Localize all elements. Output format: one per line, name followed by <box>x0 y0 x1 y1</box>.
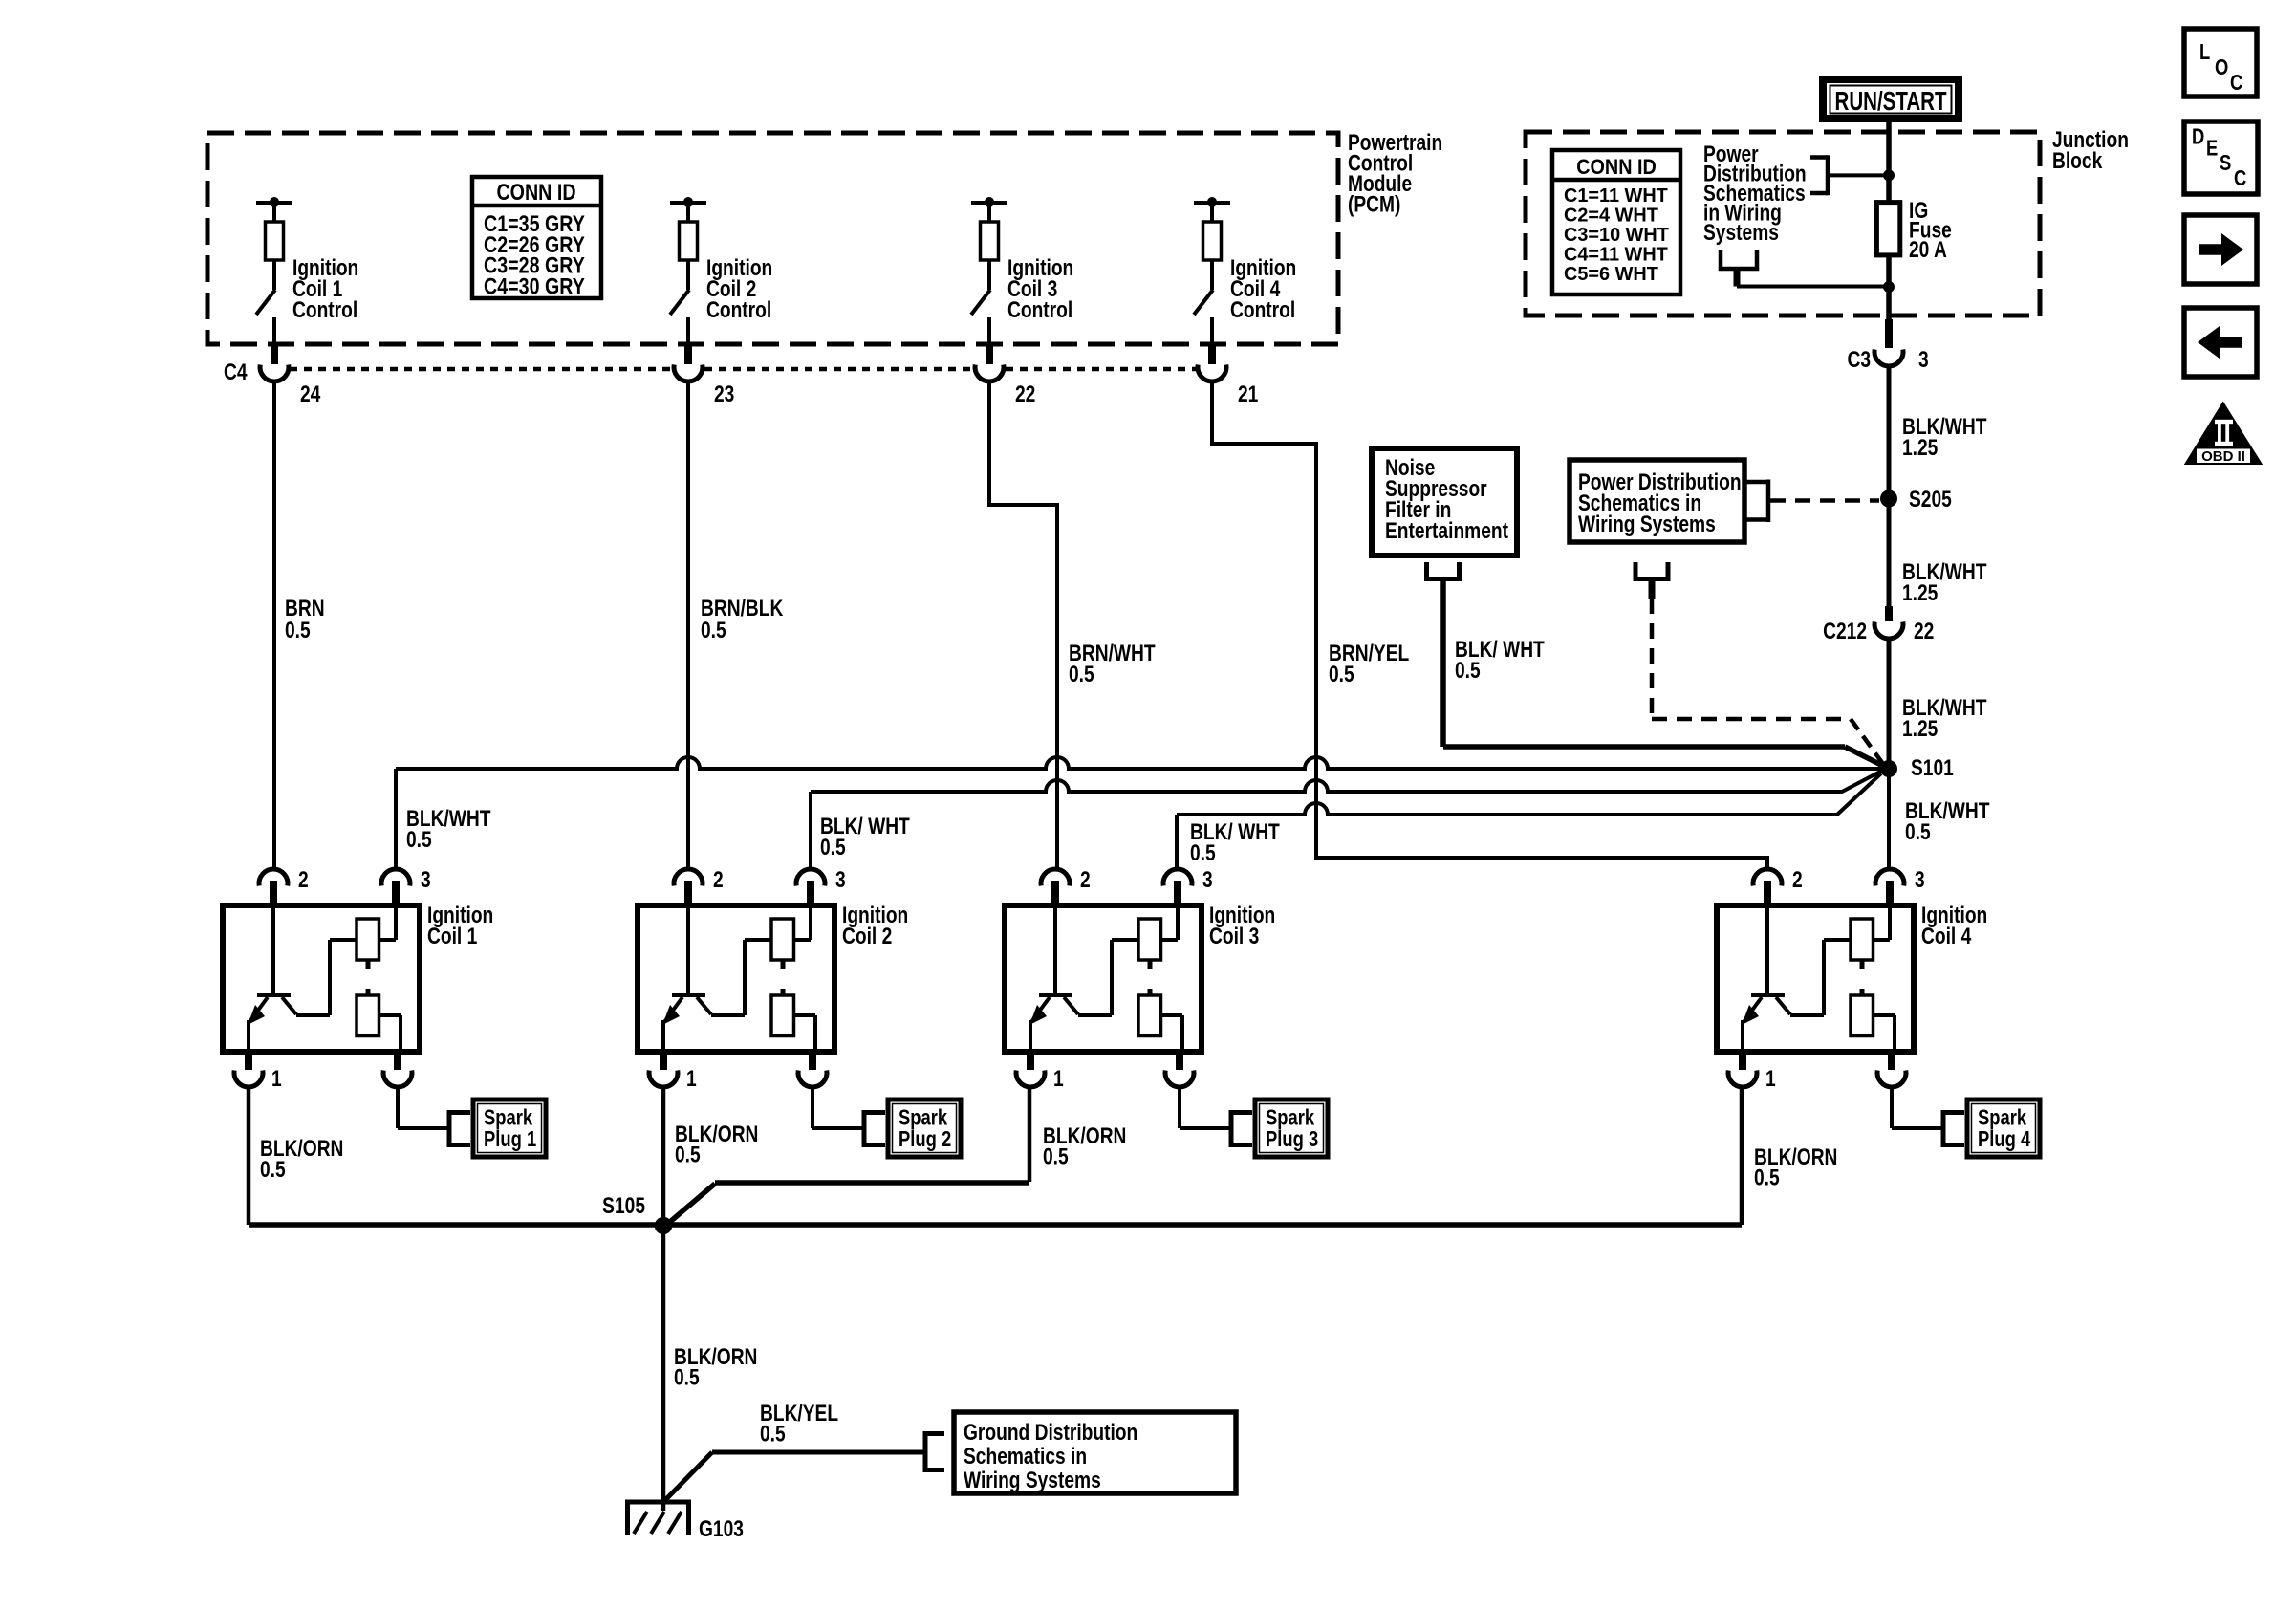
coil 2 spark output connector <box>809 1052 816 1070</box>
wire noise suppressor to S101 (BLK/ WHT 0.5) <box>1440 579 1446 748</box>
bracket under noise suppressor <box>1424 562 1429 577</box>
wire BRN/WHT 0.5 (coil 3 control) <box>989 381 1057 869</box>
wire coil 4 pin 1 BLK/ORN 0.5 <box>1740 1087 1744 1225</box>
ignition coil 1 box <box>223 905 420 1052</box>
svg-text:Control: Control <box>1007 296 1072 323</box>
ground G103 <box>625 1500 691 1505</box>
svg-text:Plug 1: Plug 1 <box>484 1127 536 1151</box>
connector C4 pin 21 <box>1208 344 1216 364</box>
connector C3 pin 3 <box>1885 319 1893 348</box>
coil 2 secondary winding <box>771 995 794 1036</box>
svg-text:Plug 4: Plug 4 <box>1978 1127 2031 1151</box>
LOC icon <box>2184 29 2257 97</box>
connector C4 pin 22 <box>986 344 993 364</box>
wire coil 2 pin 3 BLK/ WHT 0.5 to S101 <box>809 792 812 869</box>
coil 2 primary winding <box>771 919 794 960</box>
ignition coil 2 box <box>638 905 834 1052</box>
svg-text:0.5: 0.5 <box>406 826 432 853</box>
svg-text:0.5: 0.5 <box>1190 839 1216 866</box>
coil 4 transistor <box>1765 905 1769 995</box>
svg-text:G103: G103 <box>699 1515 744 1542</box>
svg-text:S105: S105 <box>602 1192 645 1219</box>
Junction Block box (dashed) <box>1526 132 2040 316</box>
coil 3 transistor <box>1053 905 1057 995</box>
svg-text:0.5: 0.5 <box>820 834 846 860</box>
wire BRN 0.5 (coil 1 control) <box>272 381 276 869</box>
Power Distribution Schematics box <box>1570 460 1744 542</box>
svg-text:2: 2 <box>713 866 724 893</box>
svg-text:Control: Control <box>292 296 357 323</box>
svg-text:0.5: 0.5 <box>1329 661 1354 687</box>
svg-text:0.5: 0.5 <box>701 617 726 643</box>
svg-text:3: 3 <box>1202 866 1213 893</box>
svg-text:0.5: 0.5 <box>285 617 311 643</box>
wire coil 1 to spark plug 1 <box>396 1087 400 1128</box>
svg-text:23: 23 <box>714 381 734 407</box>
svg-text:24: 24 <box>300 381 320 407</box>
svg-text:1: 1 <box>271 1065 282 1092</box>
coil 2 pin 1 connector <box>660 1052 667 1070</box>
right arrow icon <box>2184 215 2257 284</box>
svg-text:O: O <box>2215 55 2228 79</box>
coil 4 pin 3 connector <box>1875 869 1904 885</box>
svg-text:C: C <box>2234 166 2246 190</box>
junction node above fuse <box>1883 169 1895 181</box>
svg-text:Systems: Systems <box>1703 219 1779 246</box>
svg-text:C5=6 WHT: C5=6 WHT <box>1564 264 1659 285</box>
wire BLK/YEL 0.5 to ground distribution <box>664 1452 712 1501</box>
wire coil 2 pin 1 BLK/ORN 0.5 <box>661 1087 666 1225</box>
coil 1 pin 1 connector <box>245 1052 252 1070</box>
svg-text:C4: C4 <box>224 359 248 385</box>
svg-text:0.5: 0.5 <box>1069 661 1094 687</box>
bracket spark plug 1 <box>447 1110 452 1147</box>
OBD II icon <box>2184 402 2263 466</box>
svg-text:3: 3 <box>1918 346 1929 373</box>
bracket to power distribution schematics <box>1810 155 1828 160</box>
svg-text:0.5: 0.5 <box>1043 1143 1069 1169</box>
svg-text:CONN ID: CONN ID <box>496 179 575 205</box>
coil 3 pin 2 connector <box>1041 869 1070 885</box>
PCM CONN ID table <box>472 177 601 298</box>
svg-text:Wiring Systems: Wiring Systems <box>964 1467 1101 1493</box>
Spark Plug 4 box <box>1967 1099 2040 1157</box>
wire coil 1 pin 3 BLK/WHT 0.5 to S101 <box>394 769 398 869</box>
junction node below fuse <box>1883 281 1895 293</box>
svg-text:Coil 3: Coil 3 <box>1209 923 1259 949</box>
svg-text:E: E <box>2206 137 2218 161</box>
svg-text:3: 3 <box>835 866 846 893</box>
svg-text:Plug 3: Plug 3 <box>1266 1127 1318 1151</box>
svg-text:22: 22 <box>1015 381 1035 407</box>
svg-text:C4=11 WHT: C4=11 WHT <box>1564 244 1668 265</box>
wire S105 to G103 BLK/ORN 0.5 <box>661 1225 666 1511</box>
bracket spark plug 2 <box>862 1110 867 1147</box>
PCM module box (dashed) <box>207 133 1338 344</box>
svg-text:L: L <box>2199 40 2210 64</box>
wire coil 3 pin 3 BLK/ WHT 0.5 to S101 <box>1175 815 1179 869</box>
Junction CONN ID table <box>1552 150 1680 294</box>
coil 4 secondary winding <box>1851 995 1874 1036</box>
svg-text:21: 21 <box>1238 381 1258 407</box>
DESC icon <box>2184 121 2258 194</box>
svg-text:(PCM): (PCM) <box>1348 190 1400 217</box>
coil 3 secondary winding <box>1138 995 1161 1036</box>
wire fuse to junction box exit <box>1886 255 1892 319</box>
svg-text:2: 2 <box>1792 866 1803 893</box>
svg-text:Control: Control <box>706 296 771 323</box>
bracket spark plug 4 <box>1941 1110 1946 1147</box>
wire coil 2 to spark plug 2 <box>811 1087 814 1128</box>
ignition coil 4 box <box>1717 905 1914 1052</box>
svg-text:OBD II: OBD II <box>2201 448 2245 465</box>
svg-text:RUN/START: RUN/START <box>1835 86 1947 116</box>
coil 3 pin 3 connector <box>1163 869 1192 885</box>
svg-text:22: 22 <box>1914 618 1934 644</box>
coil 1 transistor <box>271 905 275 995</box>
svg-text:20 A: 20 A <box>1909 236 1947 263</box>
wire coil 3 pin 1 BLK/ORN 0.5 <box>1028 1087 1032 1182</box>
svg-text:1: 1 <box>1765 1065 1776 1092</box>
svg-text:C2=4 WHT: C2=4 WHT <box>1564 205 1659 226</box>
coil 4 spark output connector <box>1888 1052 1895 1070</box>
svg-text:C3: C3 <box>1847 346 1871 373</box>
svg-text:D: D <box>2192 125 2204 149</box>
svg-text:Ground Distribution: Ground Distribution <box>964 1419 1137 1446</box>
wire BRN/BLK 0.5 (coil 2 control) <box>686 381 690 869</box>
splice S205 <box>1880 490 1897 508</box>
coil 3 pin 1 connector <box>1027 1052 1034 1070</box>
wire bracket to ignition feed <box>1828 173 1889 177</box>
bracket spark plug 3 <box>1229 1110 1234 1147</box>
RUN/START power tag <box>1819 76 1962 122</box>
svg-text:3: 3 <box>1915 866 1925 893</box>
svg-text:1.25: 1.25 <box>1902 434 1938 461</box>
bracket right of power distribution box <box>1745 480 1766 485</box>
dashed wire to S205 <box>1770 498 1879 503</box>
svg-text:Entertainment: Entertainment <box>1385 517 1508 544</box>
svg-text:Plug 2: Plug 2 <box>899 1127 951 1151</box>
svg-text:C: C <box>2230 71 2242 95</box>
svg-text:0.5: 0.5 <box>760 1420 786 1447</box>
splice S101 <box>1880 760 1897 777</box>
wire S205 to C212 <box>1887 498 1892 612</box>
wire S101 to coil 4 pin 3 (BLK/WHT 0.5) <box>1887 769 1891 869</box>
bracket ground distribution <box>923 1431 928 1472</box>
svg-text:C1=11 WHT: C1=11 WHT <box>1564 185 1668 207</box>
coil 2 transistor <box>686 905 690 995</box>
svg-text:1.25: 1.25 <box>1902 579 1938 606</box>
svg-text:Control: Control <box>1230 296 1295 323</box>
svg-text:Coil 1: Coil 1 <box>427 923 477 949</box>
svg-text:S205: S205 <box>1909 486 1952 512</box>
coil 4 primary winding <box>1851 919 1874 960</box>
svg-text:0.5: 0.5 <box>674 1363 700 1390</box>
ignition coil 2 driver (PCM output) <box>670 201 706 205</box>
svg-text:0.5: 0.5 <box>1455 657 1481 684</box>
svg-text:Schematics in: Schematics in <box>964 1443 1087 1469</box>
coil 1 pin 3 connector <box>381 869 410 885</box>
wire coil 3 to spark plug 3 <box>1178 1087 1181 1128</box>
wire RUN/START to fuse <box>1886 122 1892 203</box>
svg-text:Wiring Systems: Wiring Systems <box>1578 511 1716 537</box>
dashed wire to S101 <box>1650 599 1655 719</box>
ignition coil 3 driver (PCM output) <box>971 201 1007 205</box>
svg-text:C4=30 GRY: C4=30 GRY <box>484 273 585 299</box>
ignition coil 4 driver (PCM output) <box>1194 201 1230 205</box>
svg-text:Coil 4: Coil 4 <box>1921 923 1971 949</box>
bracket under in Wiring Systems <box>1719 250 1723 267</box>
svg-text:1: 1 <box>686 1065 697 1092</box>
coil 1 secondary winding <box>357 995 379 1036</box>
Ground Distribution Schematics box <box>954 1412 1236 1493</box>
coil 4 pin 1 connector <box>1739 1052 1746 1070</box>
wire S105 ground bus <box>249 1222 1742 1228</box>
connector C212 pin 22 <box>1885 606 1893 621</box>
svg-text:C212: C212 <box>1823 618 1867 644</box>
left arrow icon <box>2184 308 2257 377</box>
coil 3 primary winding <box>1138 919 1161 960</box>
Spark Plug 3 box <box>1255 1099 1328 1157</box>
svg-text:1: 1 <box>1053 1065 1064 1092</box>
svg-text:0.5: 0.5 <box>675 1141 701 1167</box>
bracket under power distribution box <box>1634 562 1638 577</box>
svg-text:S101: S101 <box>1911 754 1954 781</box>
svg-text:2: 2 <box>298 866 309 893</box>
svg-text:C3=10 WHT: C3=10 WHT <box>1564 225 1670 246</box>
wire bracket to main feed <box>1737 285 1889 289</box>
ignition coil 3 box <box>1005 905 1202 1052</box>
fuse IG 20A <box>1876 203 1899 255</box>
wire coil 1 pin 1 BLK/ORN 0.5 <box>247 1087 251 1225</box>
coil 3 spark output connector <box>1176 1052 1183 1070</box>
coil 2 pin 2 connector <box>674 869 703 885</box>
wire coil 4 to spark plug 4 <box>1890 1087 1894 1128</box>
connector C4 dotted harness line <box>290 367 672 372</box>
wire BRN/YEL 0.5 (coil 4 control) <box>1212 381 1767 869</box>
Noise Suppressor Filter box <box>1372 448 1517 555</box>
splice S105 <box>655 1217 672 1234</box>
ignition coil 1 driver (PCM output) <box>256 201 292 205</box>
connector C4 pin 23 <box>684 344 692 364</box>
Spark Plug 2 box <box>888 1099 961 1157</box>
svg-text:0.5: 0.5 <box>260 1156 286 1183</box>
svg-text:1.25: 1.25 <box>1902 715 1938 742</box>
svg-text:Block: Block <box>2052 147 2103 174</box>
svg-text:Coil 2: Coil 2 <box>842 923 892 949</box>
Spark Plug 1 box <box>473 1099 546 1157</box>
svg-text:CONN ID: CONN ID <box>1576 156 1657 179</box>
coil 1 pin 2 connector <box>259 869 288 885</box>
svg-text:0.5: 0.5 <box>1905 818 1931 845</box>
svg-text:0.5: 0.5 <box>1754 1164 1780 1190</box>
wire C3 to S205 (BLK/WHT 1.25) <box>1887 366 1892 498</box>
coil 1 spark output connector <box>394 1052 401 1070</box>
coil 1 primary winding <box>357 919 379 960</box>
coil 4 pin 2 connector <box>1753 869 1782 885</box>
svg-text:3: 3 <box>421 866 431 893</box>
coil 2 pin 3 connector <box>796 869 825 885</box>
svg-text:2: 2 <box>1080 866 1091 893</box>
wire C212 to S101 <box>1887 639 1892 769</box>
svg-text:S: S <box>2220 151 2231 175</box>
connector C4 pin 24 <box>271 344 278 364</box>
